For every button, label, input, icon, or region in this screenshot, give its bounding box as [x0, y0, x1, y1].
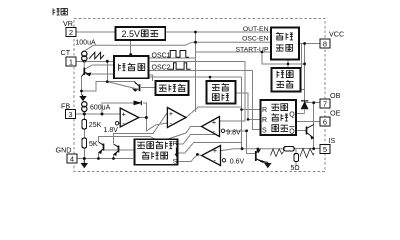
- stub start current right to supply vertical: [301, 89, 305, 91]
- diode D2 vertical at OB: [301, 101, 308, 114]
- svg-text:Q: Q: [289, 128, 295, 135]
- svg-text:4: 4: [70, 155, 74, 164]
- wire Q1 collector down to ground: [81, 77, 83, 95]
- zigzag sense mark 2: [300, 149, 314, 158]
- wire GND rail: [77, 158, 133, 160]
- wire trigger mid to bus: [178, 142, 243, 153]
- svg-text:VR: VR: [63, 19, 73, 28]
- svg-text:+: +: [213, 146, 218, 155]
- node ref-to-osc junction: [129, 53, 132, 56]
- wire staircase to h1 bus: [82, 82, 136, 91]
- svg-text:6: 6: [323, 118, 327, 127]
- svg-text:5: 5: [323, 145, 327, 154]
- node START-UP corner: [261, 51, 264, 54]
- START-UP branch down to start current: [262, 52, 305, 68]
- transistor Q6 PNP bottom: [256, 149, 268, 162]
- block power management: [271, 28, 299, 60]
- wire Q4 emitter down: [113, 155, 115, 159]
- node h1 bus junction: [106, 80, 109, 83]
- node GND at divider: [83, 157, 86, 160]
- node comp D output: [196, 153, 199, 156]
- node VCC rail: [303, 42, 306, 45]
- ground symbol under Q1: [79, 95, 86, 102]
- bus vertical v2 to comparator C plus: [220, 62, 245, 121]
- wire FF Q to diode anode: [296, 113, 305, 115]
- transistor Q5 NPN right: [307, 125, 314, 140]
- svg-text:OB: OB: [330, 91, 341, 100]
- node sense wire v1: [241, 147, 244, 150]
- wires group: [76, 32, 321, 167]
- wire OSC1: [149, 57, 196, 59]
- wire diode D1 branch: [102, 103, 146, 118]
- node OB: [312, 101, 315, 104]
- comparator C 9.8V points left: [202, 117, 242, 137]
- block thermal protection: [156, 81, 189, 95]
- sawtooth waveform glyph: [89, 52, 104, 59]
- node R1 feed: [240, 108, 243, 111]
- wire FB pin3 to error amp: [76, 113, 121, 115]
- svg-text:IS: IS: [329, 136, 336, 145]
- svg-text:600uA: 600uA: [90, 104, 111, 111]
- OSC2 label and pulse wave: [152, 63, 191, 72]
- node FB diode branch: [101, 113, 104, 116]
- IC dashed boundary: [74, 18, 325, 171]
- block ramp compensation: [207, 81, 236, 104]
- block ramp current drive flip-flop: [261, 100, 297, 135]
- bus vertical v4 OSC2 to S: [253, 71, 261, 130]
- pin box 4 GND: [56, 146, 78, 164]
- svg-text:5K: 5K: [89, 141, 98, 148]
- wire error amp output down: [139, 118, 168, 132]
- diode D1 horizontal: [134, 101, 142, 106]
- svg-text:R: R: [173, 140, 178, 147]
- wire OSC-EN with diagonal from 100uA source: [86, 42, 272, 50]
- wire osc right to ramp comp: [149, 77, 242, 81]
- wire 600uA chain: [83, 111, 85, 114]
- resistor 25K: [82, 119, 102, 129]
- node IS: [312, 147, 315, 150]
- ref bus vertical x=246.6: [247, 131, 256, 154]
- wire OB: diode top to pin7: [305, 101, 320, 103]
- comparator D 0.6V points left: [202, 146, 245, 166]
- svg-text:5Ω: 5Ω: [291, 165, 300, 172]
- pin box 7 OB: [320, 91, 341, 109]
- svg-text:OE: OE: [330, 109, 341, 118]
- op-amp B: [167, 108, 186, 128]
- svg-text:2: 2: [69, 28, 73, 37]
- svg-text:8: 8: [323, 40, 327, 49]
- transistor Q3 bottom mirror left: [98, 142, 103, 154]
- resistor 5K: [82, 138, 98, 148]
- node CT branch: [106, 60, 109, 63]
- wire Q1 upper diag lead: [84, 65, 114, 70]
- pin box 6 OE: [320, 109, 341, 127]
- node OSC-EN junction: [194, 41, 197, 44]
- resistor horizontal at IS: [284, 147, 295, 151]
- svg-text:VCC: VCC: [329, 30, 344, 39]
- node error amp output: [145, 116, 148, 119]
- wire FF Qbar to Q5 base: [296, 130, 307, 132]
- ground symbol at GND pin: [81, 159, 88, 169]
- wire Q1 emitter from right: [90, 73, 115, 75]
- wire ref box bottom to oscillator top: [130, 40, 132, 56]
- OSC1 label and square wave: [152, 51, 190, 60]
- wire power mgmt to VCC pin8: [299, 43, 320, 45]
- block 2.5V reference: [115, 27, 165, 40]
- svg-text:+: +: [122, 109, 127, 118]
- svg-text:3: 3: [68, 110, 72, 119]
- current source 600uA: [82, 102, 111, 112]
- node FB divider: [83, 113, 86, 116]
- wire OSC2 lower: [149, 70, 253, 72]
- svg-text:0.6V: 0.6V: [230, 158, 245, 165]
- bus vertical v1 to R1 and down to sense wire: [242, 77, 261, 149]
- op-amp A error amp: [104, 108, 139, 134]
- current source 100uA: [75, 39, 96, 61]
- svg-text:1: 1: [69, 58, 73, 67]
- wire trigger S from comp D out: [178, 155, 202, 162]
- pin box 1 CT: [61, 48, 77, 67]
- svg-text:OSC2: OSC2: [152, 65, 171, 72]
- svg-text:CT: CT: [61, 48, 71, 57]
- node OUT-EN junction: [194, 31, 197, 34]
- pin box 2 VR: [63, 19, 76, 37]
- svg-text:+: +: [212, 118, 217, 127]
- title 框图: [53, 8, 67, 15]
- ground symbol under Q6: [264, 162, 271, 168]
- wire START-UP: [196, 51, 272, 53]
- wire Q4 collector to amp B plus: [114, 113, 168, 144]
- block start current: [272, 68, 301, 92]
- svg-text:Q: Q: [289, 111, 295, 118]
- svg-text:S: S: [173, 158, 178, 165]
- transistor Q4 bottom mirror left: [113, 144, 118, 156]
- node Q6 emitter: [257, 148, 260, 151]
- svg-text:OUT-EN: OUT-EN: [243, 26, 269, 33]
- stub osc to thermal top: [149, 75, 153, 81]
- svg-text:R: R: [262, 117, 267, 124]
- svg-text:OSC1: OSC1: [152, 52, 171, 59]
- node CT at 100uA source: [83, 60, 86, 63]
- svg-text:+: +: [169, 109, 174, 118]
- pin box 3 FB: [61, 101, 76, 119]
- vertical supply x=304.6: [304, 44, 306, 102]
- wire CT pin1 to oscillator: [76, 60, 114, 62]
- wire OE pin6: [296, 121, 320, 123]
- node start current feed: [287, 63, 290, 66]
- wire Q3 collector to trigger top: [99, 137, 157, 142]
- node 9.8V ref bus: [245, 129, 248, 132]
- svg-text:7: 7: [323, 100, 327, 109]
- wire OSC1 lower branch: [151, 61, 245, 63]
- bus vertical v3 ramp comp out to R2: [236, 93, 261, 119]
- svg-text:START-UP: START-UP: [236, 47, 269, 54]
- node R2 feed: [247, 118, 250, 121]
- svg-text:GND: GND: [56, 146, 72, 155]
- vertical x=313.7 OB to IS: [313, 103, 315, 149]
- wire amp B out to bus v1: [186, 107, 242, 117]
- wire Q3 Q4 base rail into trigger: [104, 149, 135, 151]
- wire trigger R rising: [178, 135, 216, 145]
- wire comp C minus to ref bus: [225, 130, 247, 132]
- wire comp C out to trigger top: [169, 127, 202, 139]
- wire comp D plus joining sense rail: [221, 149, 284, 151]
- transistor Q2 near thermal: [132, 82, 140, 92]
- node GND Q4 emitter: [112, 157, 115, 160]
- pin box 8 VCC: [320, 30, 344, 49]
- resistor 5 ohm vertical: [291, 154, 300, 173]
- svg-text:25K: 25K: [89, 122, 102, 129]
- wire IS sense rail: [294, 149, 320, 167]
- zigzag sense mark 1: [271, 149, 284, 157]
- svg-text:9.8V: 9.8V: [226, 129, 241, 136]
- node GND Q3 emitter: [97, 157, 100, 160]
- block upper limit current trigger: [135, 139, 178, 165]
- wire pin2 VR to 2.5V ref: [76, 31, 115, 33]
- wire OUT-EN: ref to power mgmt: [165, 31, 271, 33]
- wire Q2 base to thermal box: [141, 87, 157, 89]
- svg-text:R: R: [262, 107, 267, 114]
- vertical x=107 down to h1 bus: [106, 61, 108, 81]
- svg-text:100uA: 100uA: [75, 39, 96, 46]
- svg-text:2.5V: 2.5V: [122, 29, 141, 39]
- transistor Q1 PNP near CT: [82, 61, 92, 76]
- svg-text:FB: FB: [61, 101, 70, 110]
- pin box 5 IS: [320, 136, 335, 154]
- vertical junction line x=195.5: [195, 32, 197, 112]
- wire Q3 emitter down: [98, 153, 100, 159]
- node ramp comp feed: [209, 76, 212, 79]
- vertical supply x=301.5 to start current box: [301, 44, 303, 69]
- node Q1 collector branch: [80, 90, 83, 93]
- diagonal to Q2 emitter: [107, 82, 139, 90]
- node supply branch: [303, 63, 306, 66]
- svg-text:1.8V: 1.8V: [104, 127, 119, 134]
- wire 25K 5K chain: [83, 114, 85, 159]
- block oscillator: [114, 56, 149, 78]
- svg-text:S: S: [262, 127, 267, 134]
- svg-text:OSC-EN: OSC-EN: [242, 36, 269, 43]
